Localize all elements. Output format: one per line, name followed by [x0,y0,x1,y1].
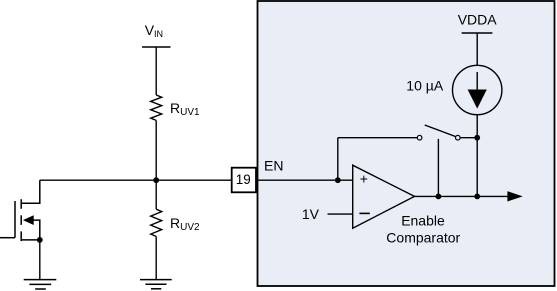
wire EN pin to comparator + input [256,179,353,181]
svg-text:VDDA: VDDA [458,12,498,28]
wire switch branch vertical [337,138,339,181]
Q1 source stub [21,239,40,241]
ground (Q1 source) [24,280,57,289]
VDDA supply bar [462,32,493,34]
switch S1 lever [425,125,456,137]
enable block box U1 [258,1,555,286]
Q1 channel segment (drain) [20,199,22,209]
resistor RUV1 [151,95,162,120]
junction EN / switch branch [335,177,341,183]
svg-text:EN: EN [264,158,283,174]
svg-text:+: + [360,171,368,187]
output arrow head [507,191,522,201]
Q1 channel segment (body) [20,215,22,225]
wire switch right contact to current source line [460,137,477,139]
junction output / current source [474,194,480,200]
svg-text:1V: 1V [302,206,320,222]
Q1 body stub [34,220,40,240]
wire I1 to output line [476,115,478,197]
wire RUV2 to ground [155,236,157,279]
svg-text:RUV1: RUV1 [170,100,200,118]
Q1 gate bar [14,201,16,238]
Q1 channel segment (source) [20,231,22,241]
ground (RUV2) [140,280,172,289]
svg-text:19: 19 [236,172,251,187]
switch S1 left contact [417,135,422,140]
switch S1 right contact [456,135,461,140]
svg-text:10 µA: 10 µA [406,77,444,93]
wire 1V to comparator - input [328,213,353,215]
wire VIN bar to RUV1 [155,47,157,95]
wire node EN to RUV2 [155,180,157,209]
svg-text:VIN: VIN [145,22,163,39]
I1 arrow shaft [476,72,478,95]
wire VDDA bar to current source I1 [476,33,478,65]
wire switch branch horizontal [338,137,418,139]
wire switch branch to output [437,139,439,197]
U2 - input label [359,212,369,214]
svg-text:Comparator: Comparator [386,229,460,245]
op-amp U2 enable comparator [353,165,415,228]
wire Q1 source to ground [39,240,41,280]
junction current source line / switch [474,135,480,141]
svg-text:RUV2: RUV2 [170,215,200,233]
Q1 body arrow [23,215,34,225]
wire RUV1 to node EN [155,120,157,180]
wire node EN horizontal (drain to pin 19) [40,179,232,181]
wire comparator output [415,195,510,197]
Q1 drain stub [21,180,40,203]
VIN supply bar [142,46,171,48]
junction node EN divider [153,177,159,183]
transistor Q1 (NMOS) [0,180,40,241]
svg-text:Enable: Enable [401,213,445,229]
pin 19 box [232,168,256,193]
Q1 gate lead wire [0,237,15,239]
junction output / switch branch [436,194,442,200]
junction Q1 source/body [37,237,43,243]
current source I1 [453,65,502,114]
I1 arrow head [468,90,487,109]
resistor RUV2 [151,209,162,236]
